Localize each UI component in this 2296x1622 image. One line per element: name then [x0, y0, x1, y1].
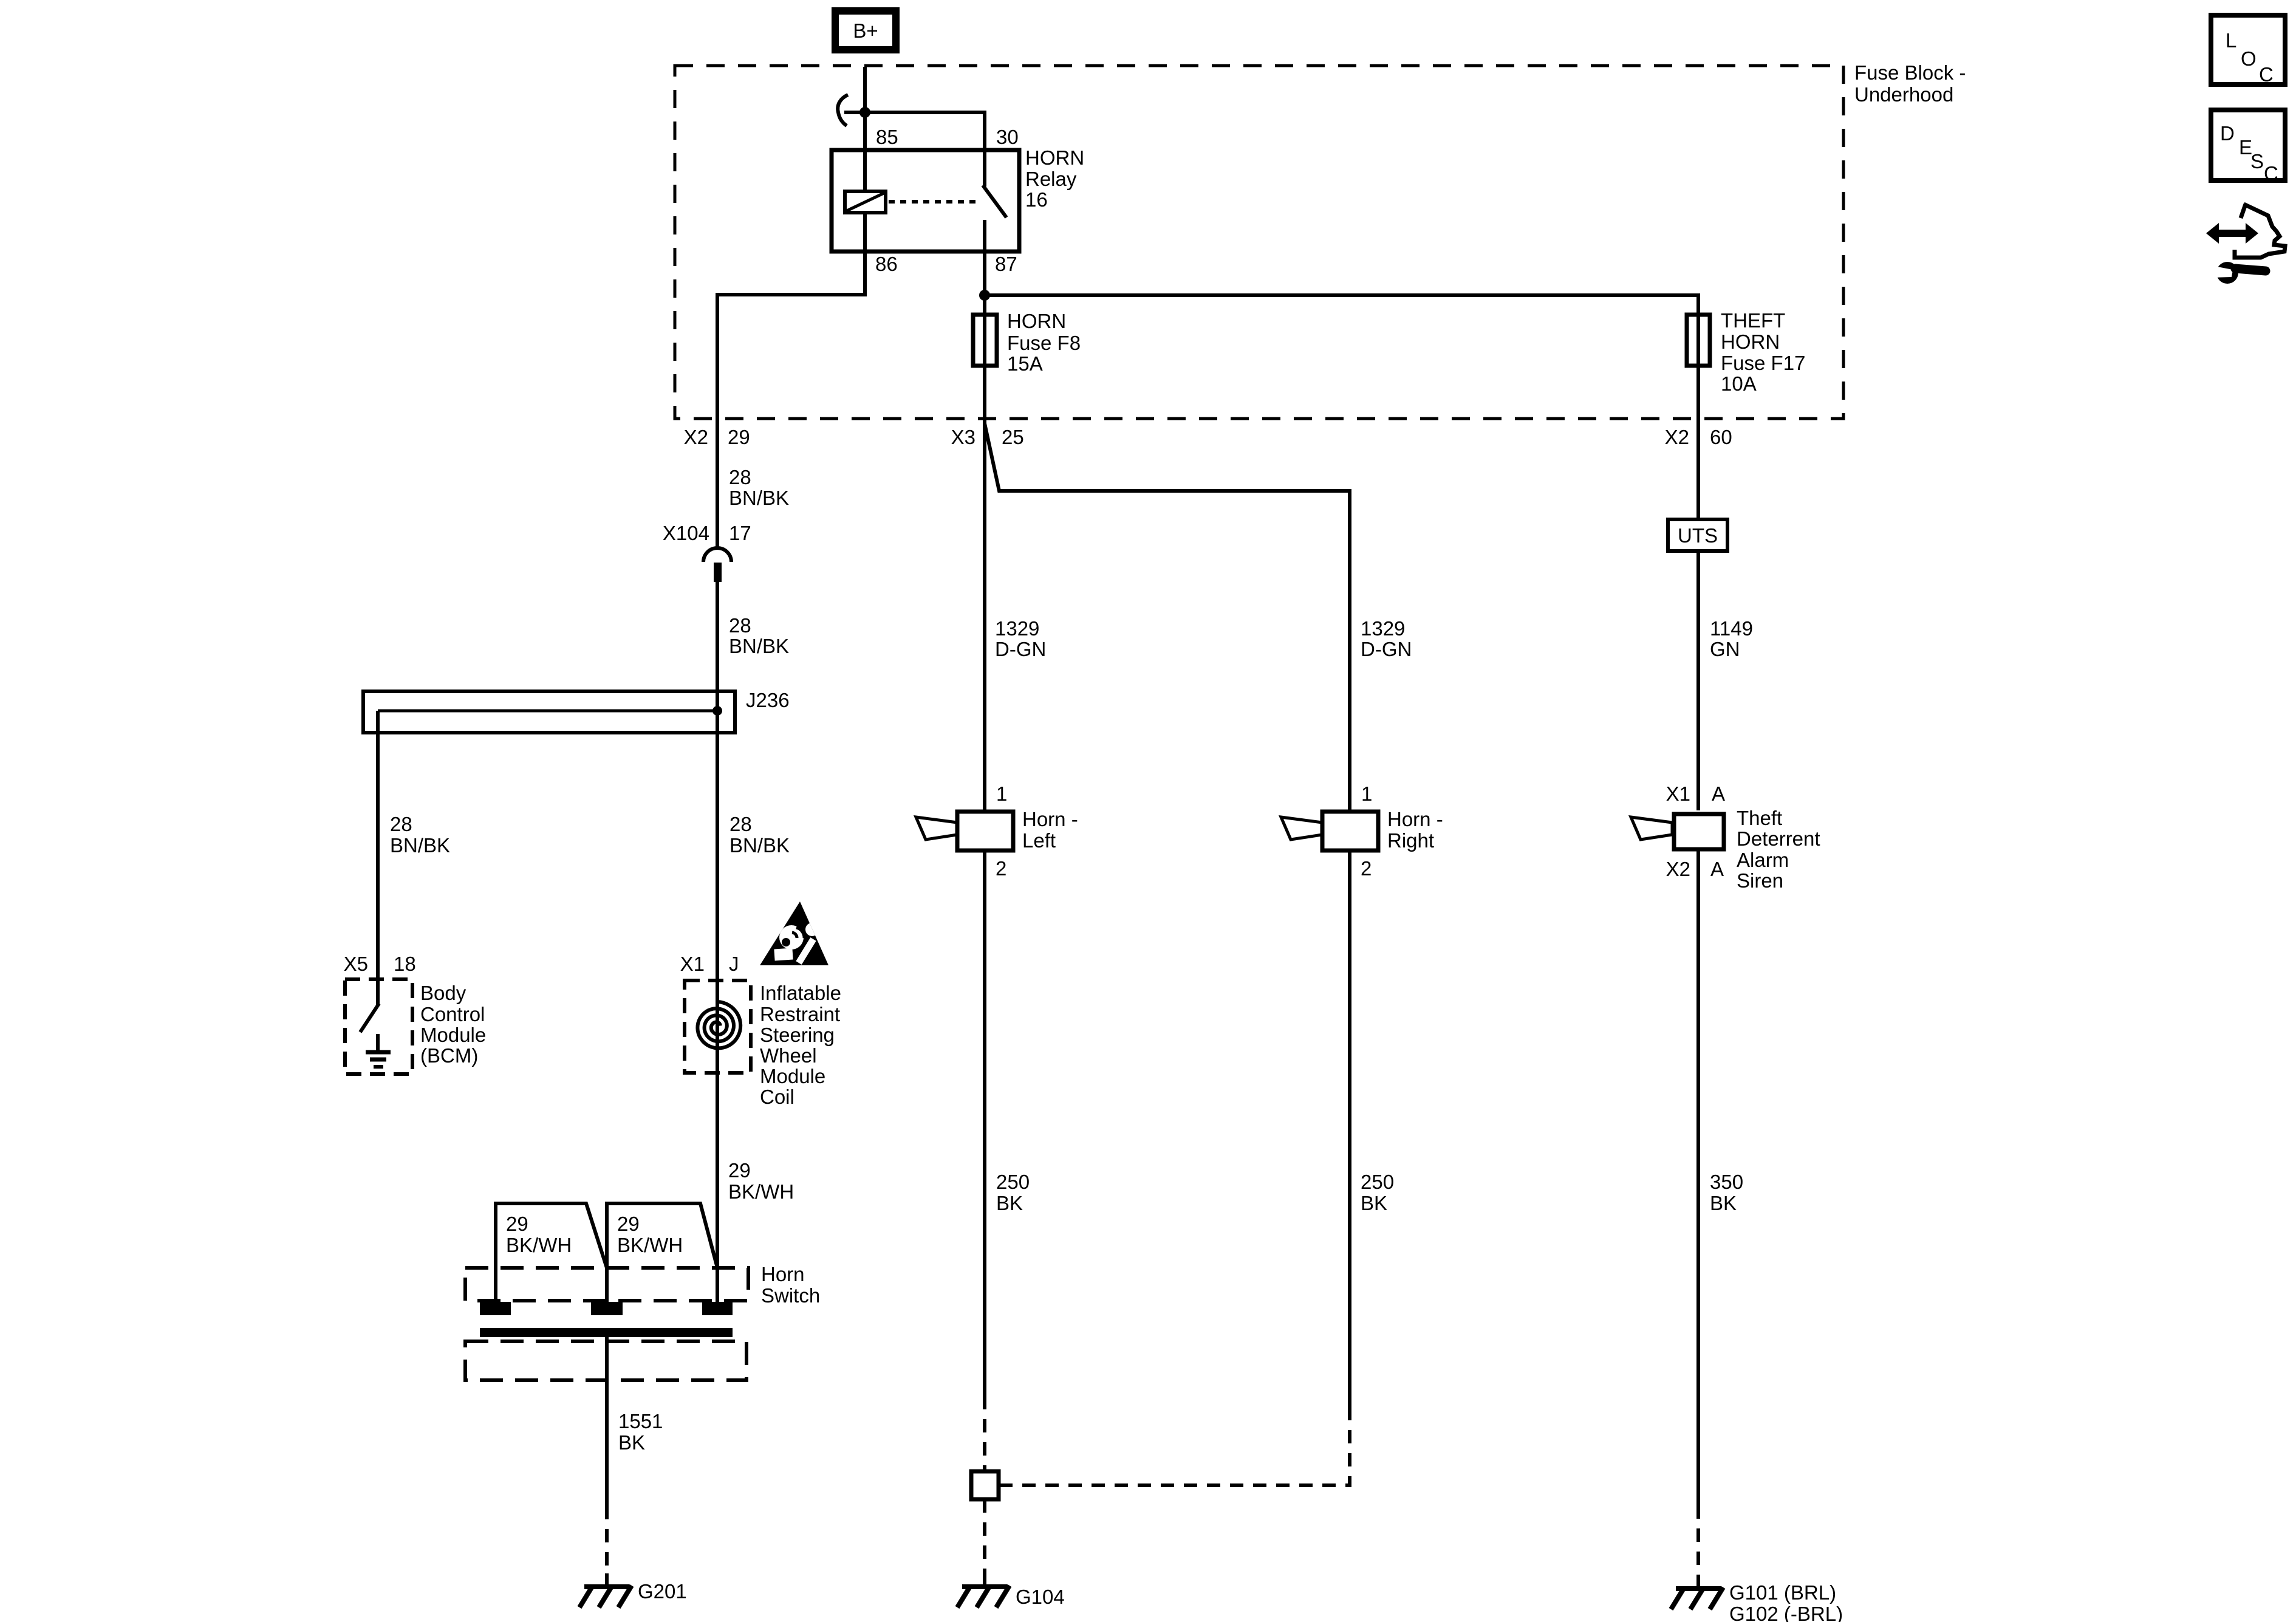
horn left box [957, 812, 1013, 850]
svg-text:18: 18 [394, 953, 416, 975]
dashed wire to G201 [605, 1506, 609, 1577]
relay HORN Relay 16 box [832, 150, 1019, 252]
connector X5 pin 18 labels [344, 953, 416, 975]
horn left label [1022, 808, 1078, 852]
svg-text:GN: GN [1710, 638, 1740, 660]
clockspring coil spiral [697, 1002, 740, 1048]
wire X104 to J236 [716, 581, 719, 711]
wire label 1329 D-GN (horn right) [1361, 617, 1412, 660]
wire junction to theft fuse [985, 295, 1698, 313]
svg-text:15A: 15A [1007, 352, 1043, 375]
svg-text:B+: B+ [853, 19, 878, 42]
connector X2 pin 60 labels [1665, 426, 1732, 448]
svg-text:29: 29 [728, 426, 750, 448]
svg-text:28: 28 [729, 466, 751, 488]
svg-text:87: 87 [995, 253, 1017, 275]
svg-text:29: 29 [617, 1213, 640, 1235]
svg-text:17: 17 [729, 522, 751, 544]
wire node to pin 85 [863, 112, 867, 191]
svg-text:BK: BK [996, 1192, 1023, 1214]
fuse F8 label [1007, 310, 1081, 375]
wire through fuse F8 [983, 313, 986, 425]
svg-text:(BCM): (BCM) [420, 1044, 478, 1067]
wire label 1551 BK [618, 1410, 663, 1454]
svg-text:Body: Body [420, 982, 466, 1004]
connector X2 pin A labels (siren) [1666, 858, 1724, 880]
wire pin 87 down [983, 252, 986, 313]
relay switch blade [983, 150, 1006, 252]
svg-text:HORN: HORN [1025, 146, 1084, 169]
svg-text:A: A [1712, 782, 1725, 805]
svg-text:Horn -: Horn - [1387, 808, 1443, 830]
svg-text:D-GN: D-GN [995, 638, 1046, 660]
theft deterrent alarm siren box [1674, 814, 1724, 849]
svg-text:G201: G201 [638, 1580, 687, 1603]
svg-text:S: S [2250, 150, 2264, 173]
wire switch to ground [605, 1337, 609, 1506]
wire label 29 BK/WH (main) [728, 1159, 794, 1203]
UTS connector box [1668, 519, 1727, 551]
svg-text:Coil: Coil [760, 1086, 794, 1108]
relay coil [845, 191, 886, 213]
connector X3 pin 25 labels [951, 426, 1024, 448]
coil label [760, 982, 841, 1108]
svg-text:Relay: Relay [1025, 168, 1077, 190]
BCM label [420, 982, 486, 1067]
svg-text:60: 60 [1710, 426, 1732, 448]
svg-text:D: D [2220, 122, 2235, 145]
svg-text:29: 29 [728, 1159, 751, 1182]
svg-text:L: L [2226, 29, 2236, 52]
svg-text:X3: X3 [951, 426, 975, 448]
svg-text:BK: BK [1710, 1192, 1737, 1214]
svg-text:UTS: UTS [1678, 524, 1718, 547]
svg-text:Control: Control [420, 1003, 485, 1025]
siren label [1737, 807, 1820, 892]
svg-text:O: O [2241, 47, 2257, 70]
G101 G102 labels [1729, 1581, 1843, 1622]
switch contact pad 3 [702, 1302, 733, 1315]
wire coil to horn switch [716, 1073, 719, 1302]
svg-text:Right: Right [1387, 829, 1434, 852]
svg-text:C: C [2264, 162, 2278, 185]
svg-text:1551: 1551 [618, 1410, 663, 1432]
wire B+ down to relay node [863, 67, 867, 112]
svg-text:Fuse F17: Fuse F17 [1721, 352, 1805, 374]
svg-text:Left: Left [1022, 829, 1056, 852]
wire label 28 BN/BK (BCM branch) [390, 813, 450, 857]
wire label 350 BK [1710, 1171, 1743, 1214]
horn switch contact flag left [496, 1203, 607, 1302]
svg-text:G104: G104 [1016, 1586, 1065, 1608]
svg-text:10A: 10A [1721, 372, 1757, 395]
wire label 28 BN/BK (upper) [729, 466, 789, 509]
wire label 1149 GN [1710, 617, 1753, 660]
svg-text:HORN: HORN [1721, 330, 1780, 353]
horn right label [1387, 808, 1443, 852]
switch common bar [480, 1328, 733, 1337]
svg-text:BK: BK [1361, 1192, 1387, 1214]
dashed wire splice to G104 [983, 1499, 986, 1577]
node: fuse feed junction [979, 290, 990, 301]
svg-text:2: 2 [1361, 857, 1372, 880]
fuse block label [1854, 61, 1966, 106]
svg-text:X5: X5 [344, 953, 368, 975]
horn switch contact flag middle [607, 1203, 717, 1302]
vehicle front icon [2235, 204, 2285, 258]
svg-text:BN/BK: BN/BK [729, 487, 789, 509]
svg-text:1329: 1329 [1361, 617, 1405, 640]
wire label 29 BK/WH (flag left) [506, 1213, 572, 1256]
svg-text:16: 16 [1025, 188, 1048, 211]
svg-text:Wheel: Wheel [760, 1044, 817, 1067]
double arrow [2206, 223, 2258, 244]
ground G101/G102 [1671, 1576, 1723, 1609]
svg-text:28: 28 [390, 813, 412, 835]
splice pack J236 [363, 691, 735, 733]
wire label 250 BK (right) [1361, 1171, 1394, 1214]
fuse F17 label [1721, 309, 1805, 395]
fuse block - underhood dashed box [675, 66, 1843, 419]
svg-text:X2: X2 [1666, 858, 1690, 880]
svg-text:G101 (BRL): G101 (BRL) [1729, 1581, 1836, 1604]
svg-text:85: 85 [876, 126, 898, 148]
wire fuse F17 to UTS [1696, 419, 1700, 810]
BCM internal switch [360, 979, 379, 1032]
svg-text:25: 25 [1002, 426, 1024, 448]
dashed wire horn left to splice [983, 1396, 986, 1471]
svg-text:X1: X1 [680, 953, 705, 975]
svg-text:A: A [1710, 858, 1724, 880]
BCM internal ground [366, 1034, 391, 1067]
svg-text:D-GN: D-GN [1361, 638, 1412, 660]
svg-text:X2: X2 [1665, 426, 1689, 448]
svg-text:Module: Module [420, 1024, 486, 1046]
svg-text:Horn -: Horn - [1022, 808, 1078, 830]
horn right speaker symbol [1281, 817, 1322, 840]
svg-text:Theft: Theft [1737, 807, 1782, 829]
wire J236 through [716, 691, 719, 1073]
svg-text:X1: X1 [1666, 782, 1690, 805]
svg-text:C: C [2259, 63, 2274, 86]
wire label 28 BN/BK (mid) [729, 614, 789, 657]
ground splice connector box [971, 1471, 999, 1499]
svg-text:Module: Module [760, 1065, 825, 1087]
dashed wire to G101/G102 [1696, 1505, 1700, 1579]
dashed wire horn right return [999, 1407, 1350, 1485]
wire crossover hook [838, 95, 848, 126]
svg-text:1: 1 [996, 782, 1007, 805]
fuse F8 [973, 315, 997, 366]
fuse F17 [1687, 315, 1710, 366]
svg-text:BK/WH: BK/WH [728, 1180, 794, 1203]
svg-text:J236: J236 [746, 689, 790, 711]
svg-text:Switch: Switch [761, 1284, 820, 1307]
airbag warning triangle [760, 902, 829, 965]
switch contact pad 2 [591, 1302, 623, 1315]
relay actuator dashed link [889, 200, 979, 204]
wire node to pin 30 [865, 112, 985, 150]
wire fuse F8 to horn left [983, 425, 986, 812]
battery feed B+ [835, 11, 896, 50]
svg-text:1329: 1329 [995, 617, 1039, 640]
wire label 1329 D-GN (horn left) [995, 617, 1046, 660]
svg-text:Deterrent: Deterrent [1737, 827, 1820, 850]
horn right box [1322, 812, 1378, 850]
svg-text:86: 86 [875, 253, 898, 275]
wire through fuse F17 [1696, 313, 1700, 419]
theft siren speaker symbol [1631, 817, 1672, 840]
svg-text:Alarm: Alarm [1737, 849, 1789, 871]
horn switch upper dashed box [465, 1268, 748, 1301]
svg-text:30: 30 [996, 126, 1019, 148]
connector X1 pin A labels [1666, 782, 1725, 805]
svg-text:BK/WH: BK/WH [617, 1234, 683, 1256]
svg-text:Restraint: Restraint [760, 1003, 840, 1025]
connector X2 pin 29 labels [684, 426, 750, 448]
wrench icon [2210, 262, 2266, 284]
svg-text:J: J [729, 953, 739, 975]
svg-text:Inflatable: Inflatable [760, 982, 841, 1004]
wire siren down [1696, 851, 1700, 1505]
svg-text:THEFT: THEFT [1721, 309, 1785, 332]
svg-text:BK/WH: BK/WH [506, 1234, 572, 1256]
svg-text:Horn: Horn [761, 1263, 805, 1285]
wire label 28 BN/BK (coil branch) [729, 813, 790, 857]
svg-text:250: 250 [1361, 1171, 1394, 1193]
inline connector X104 [703, 548, 731, 582]
svg-text:X2: X2 [684, 426, 708, 448]
svg-text:28: 28 [729, 813, 752, 835]
connector X104 pin 17 labels [663, 522, 751, 544]
svg-text:X104: X104 [663, 522, 709, 544]
ground G104 [957, 1573, 1010, 1607]
svg-text:1149: 1149 [1710, 617, 1753, 640]
horn left speaker symbol [916, 817, 957, 840]
svg-text:28: 28 [729, 614, 751, 637]
inflatable restraint steering wheel module coil dashed box [685, 980, 751, 1073]
horn switch label [761, 1263, 820, 1307]
wire label 29 BK/WH (flag middle) [617, 1213, 683, 1256]
horn switch lower dashed box [465, 1341, 747, 1380]
svg-text:1: 1 [1361, 782, 1372, 805]
wire horn right down [1348, 850, 1351, 1407]
wire J236 to BCM [376, 711, 380, 979]
connector X1 pin J labels [680, 953, 739, 975]
svg-text:2: 2 [996, 857, 1006, 880]
svg-text:Fuse F8: Fuse F8 [1007, 332, 1081, 354]
svg-text:Fuse Block -: Fuse Block - [1854, 61, 1966, 84]
node: relay feed junction [859, 107, 870, 118]
svg-text:HORN: HORN [1007, 310, 1066, 332]
svg-text:BN/BK: BN/BK [729, 635, 789, 657]
svg-text:BK: BK [618, 1431, 645, 1454]
wire branch X3/25 to horn right [985, 423, 1350, 812]
svg-text:G102 (-BRL): G102 (-BRL) [1729, 1603, 1843, 1622]
svg-text:BN/BK: BN/BK [390, 834, 450, 857]
svg-text:Steering: Steering [760, 1024, 835, 1046]
svg-text:Underhood: Underhood [1854, 83, 1953, 106]
svg-text:29: 29 [506, 1213, 528, 1235]
switch contact pad 1 [480, 1302, 511, 1315]
wire pin 86 to main column [717, 213, 865, 549]
svg-text:350: 350 [1710, 1171, 1743, 1193]
svg-text:250: 250 [996, 1171, 1030, 1193]
svg-text:BN/BK: BN/BK [729, 834, 790, 857]
svg-text:Siren: Siren [1737, 869, 1783, 892]
LOC icon box [2211, 15, 2285, 86]
body control module BCM dashed box [345, 979, 412, 1074]
ground G201 [579, 1573, 632, 1607]
DESC icon box [2211, 110, 2285, 185]
wire label 250 BK (left) [996, 1171, 1030, 1214]
relay label [1025, 146, 1084, 211]
wire horn left down [983, 850, 986, 1396]
